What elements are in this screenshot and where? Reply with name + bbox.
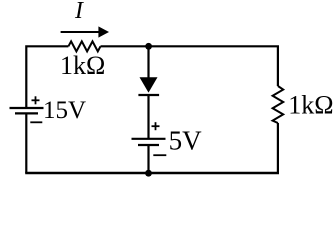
wire top-right segment bbox=[101, 46, 278, 86]
label 5V bbox=[169, 125, 203, 155]
node bottom junction bbox=[145, 170, 152, 177]
battery V1 minus sign bbox=[30, 121, 42, 123]
wire top-left segment bbox=[26, 46, 68, 108]
label 1kOhm right bbox=[288, 91, 333, 120]
wire battery V2 to bottom bbox=[147, 145, 149, 173]
battery V2 minus sign bbox=[153, 154, 166, 156]
wire diode anode bbox=[147, 46, 149, 78]
battery V1 plus sign bbox=[32, 96, 40, 104]
battery V1 15V bbox=[10, 108, 44, 113]
wire bottom bbox=[25, 172, 279, 174]
wire diode cathode to battery V2 bbox=[147, 95, 149, 139]
resistor R2 1kOhm (right) bbox=[273, 86, 284, 123]
battery V2 plus sign bbox=[152, 122, 160, 130]
battery V2 5V bbox=[132, 139, 166, 145]
svg-text:5V: 5V bbox=[169, 125, 203, 155]
wire left bottom segment bbox=[25, 113, 27, 173]
svg-text:1kΩ: 1kΩ bbox=[288, 91, 333, 120]
current label I bbox=[74, 0, 84, 24]
label 1kOhm top bbox=[60, 51, 105, 80]
svg-text:I: I bbox=[74, 0, 84, 24]
svg-text:15V: 15V bbox=[43, 97, 86, 124]
svg-text:1kΩ: 1kΩ bbox=[60, 51, 105, 80]
diode D1 bbox=[138, 77, 159, 95]
node top junction bbox=[145, 43, 152, 50]
resistor R1 1kOhm (top) bbox=[68, 41, 100, 51]
wire right bottom segment bbox=[277, 123, 279, 173]
current arrow I bbox=[61, 26, 109, 37]
label 15V bbox=[43, 97, 86, 124]
